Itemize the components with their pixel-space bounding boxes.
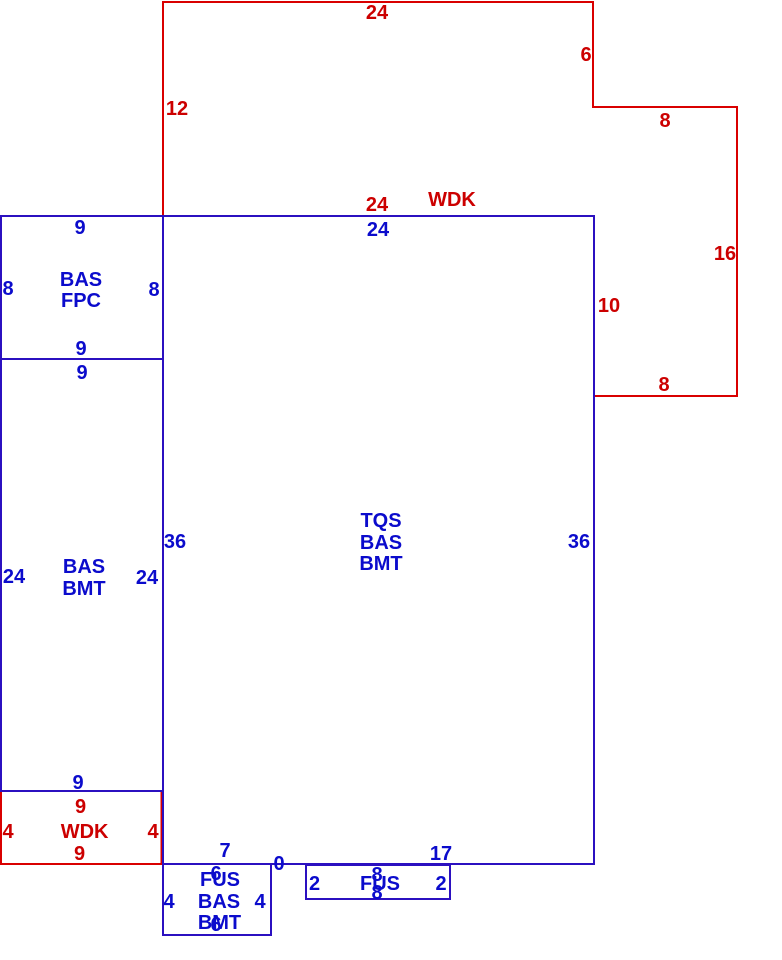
lower deck rect WDK (red) <box>1 791 162 864</box>
svg-text:10: 10 <box>598 295 620 317</box>
svg-text:WDK: WDK <box>61 821 109 843</box>
house main rect TQS BAS BMT <box>163 216 594 864</box>
svg-text:24: 24 <box>367 219 390 241</box>
svg-text:BMT: BMT <box>62 578 105 600</box>
svg-text:BMT: BMT <box>359 553 402 575</box>
svg-text:4: 4 <box>254 891 266 913</box>
svg-text:FUS: FUS <box>200 869 240 891</box>
svg-text:36: 36 <box>164 531 186 553</box>
svg-text:9: 9 <box>76 362 87 384</box>
stair rect FUS BAS BMT <box>163 864 271 935</box>
wood deck WDK outline (red polygon, top) <box>163 2 737 396</box>
svg-text:9: 9 <box>74 843 85 865</box>
svg-text:6: 6 <box>580 44 591 66</box>
svg-text:8: 8 <box>2 278 13 300</box>
svg-text:8: 8 <box>658 374 669 396</box>
svg-text:7: 7 <box>219 840 230 862</box>
svg-text:8: 8 <box>148 279 159 301</box>
svg-text:BAS: BAS <box>63 556 105 578</box>
svg-text:17: 17 <box>430 843 452 865</box>
svg-text:8: 8 <box>371 882 382 904</box>
svg-text:BAS: BAS <box>360 532 402 554</box>
svg-text:9: 9 <box>74 217 85 239</box>
svg-text:9: 9 <box>75 796 86 818</box>
svg-text:9: 9 <box>75 338 86 360</box>
svg-text:24: 24 <box>3 566 26 588</box>
svg-text:16: 16 <box>714 243 736 265</box>
svg-text:9: 9 <box>72 772 83 794</box>
upper level rect FUS <box>306 865 450 899</box>
svg-text:FPC: FPC <box>61 290 101 312</box>
svg-text:0: 0 <box>273 853 284 875</box>
porch rect BAS FPC <box>1 216 163 359</box>
svg-text:BAS: BAS <box>60 269 102 291</box>
svg-text:BAS: BAS <box>198 891 240 913</box>
svg-text:4: 4 <box>2 821 14 843</box>
svg-text:4: 4 <box>163 891 175 913</box>
left wing rect BAS BMT <box>1 359 163 791</box>
svg-text:TQS: TQS <box>360 510 401 532</box>
svg-text:24: 24 <box>366 2 389 24</box>
svg-text:WDK: WDK <box>428 189 476 211</box>
svg-text:24: 24 <box>366 194 389 216</box>
svg-text:4: 4 <box>147 821 159 843</box>
svg-text:2: 2 <box>435 873 446 895</box>
svg-text:6: 6 <box>210 914 221 936</box>
svg-text:36: 36 <box>568 531 590 553</box>
svg-text:24: 24 <box>136 567 159 589</box>
svg-text:12: 12 <box>166 98 188 120</box>
svg-text:8: 8 <box>659 110 670 132</box>
svg-text:2: 2 <box>309 873 320 895</box>
